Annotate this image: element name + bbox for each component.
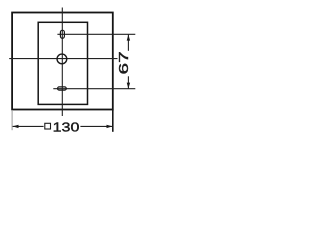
svg-text:130: 130 bbox=[53, 120, 80, 135]
center hole circle bbox=[57, 54, 67, 64]
arrowhead 67 top bbox=[127, 35, 130, 41]
vertical centerline bbox=[61, 8, 63, 117]
top slot crosshair extension line bbox=[57, 33, 135, 35]
bottom slot bbox=[58, 87, 67, 90]
svg-text:67: 67 bbox=[116, 51, 131, 74]
dimension line 130 left segment bbox=[13, 125, 44, 127]
dimension line 130 right segment bbox=[80, 125, 112, 127]
left extension line bbox=[11, 110, 13, 130]
dimension line 67 upper segment bbox=[127, 35, 129, 51]
inner rectangle bbox=[38, 22, 87, 104]
right extension line bbox=[112, 110, 114, 132]
square symbol of 130 bbox=[45, 123, 51, 129]
arrowhead 130 left bbox=[13, 125, 19, 128]
top slot bbox=[60, 30, 64, 38]
dimension line 67 lower segment bbox=[127, 76, 129, 88]
horizontal centerline bbox=[9, 58, 117, 60]
outer plate outline bbox=[12, 13, 113, 110]
arrowhead 130 right bbox=[107, 125, 113, 128]
bottom slot crosshair extension line bbox=[53, 88, 135, 90]
arrowhead 67 bottom bbox=[127, 83, 130, 89]
